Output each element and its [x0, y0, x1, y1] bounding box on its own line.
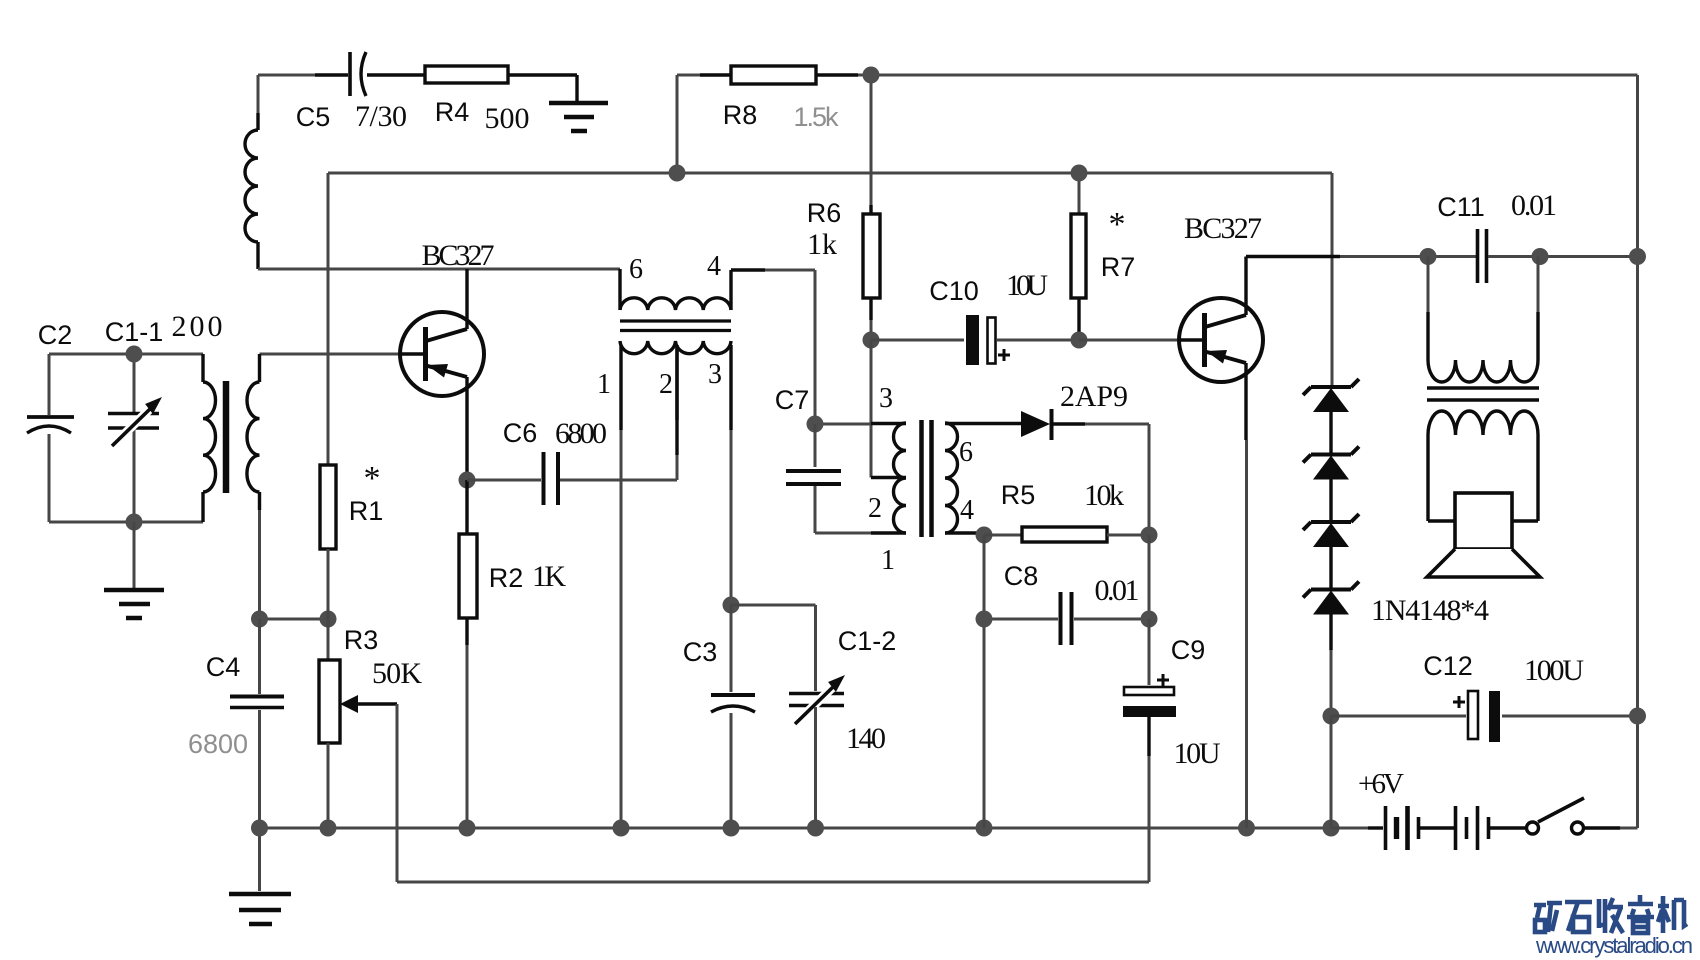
svg-text:C8: C8	[1004, 561, 1039, 591]
ground below tank	[104, 590, 164, 618]
wire antenna tank bottom y=522	[49, 521, 203, 524]
node diode/R5	[1141, 527, 1158, 544]
svg-text:R8: R8	[723, 100, 758, 130]
node bus R3	[320, 820, 337, 837]
node antenna tank top	[126, 346, 143, 363]
ground below C4	[258, 828, 261, 891]
svg-text:3: 3	[708, 359, 722, 390]
wire T1 pin3 lead down to node	[729, 345, 732, 430]
capacitor C4	[258, 619, 261, 694]
svg-text:0.01: 0.01	[1511, 189, 1557, 222]
wire bottom supply bus	[260, 827, 1332, 830]
wire base y=354	[260, 353, 400, 356]
node C12 right bus	[1629, 708, 1646, 725]
wire right bus vertical	[1636, 75, 1639, 828]
battery BT 6V	[1331, 827, 1368, 830]
watermark crystalradio logo	[1534, 895, 1687, 933]
wire T2 pin6 to diode	[945, 422, 1021, 425]
variable capacitor C1-2	[789, 694, 844, 706]
wire T3 secondary to speaker	[1428, 435, 1455, 521]
svg-text:1k: 1k	[807, 228, 837, 261]
potentiometer R3	[327, 619, 330, 660]
svg-text:R3: R3	[344, 625, 379, 655]
node bus C3	[723, 820, 740, 837]
R3 wiper arrow	[340, 695, 358, 713]
node R8/R6 top	[863, 67, 880, 84]
svg-text:C9: C9	[1171, 635, 1206, 665]
node R7 top on 173 bus	[1071, 165, 1088, 182]
speaker LS	[1455, 493, 1512, 549]
resistor R2	[465, 480, 468, 534]
diode D4 1N4148	[1313, 591, 1349, 615]
transformer T2 pin2 lead	[871, 476, 906, 479]
transformer T2 core	[922, 420, 932, 537]
svg-text:R2: R2	[489, 563, 524, 593]
wire C5 to R4	[367, 73, 425, 76]
node secondary/C4	[251, 611, 268, 628]
wire R1 bottom lead	[327, 549, 330, 619]
svg-text:C5: C5	[296, 102, 331, 132]
node C7 top / T1 pin4	[807, 416, 824, 433]
transformer T3 core	[1427, 388, 1539, 400]
wire R3 wiper feedback line	[397, 704, 1149, 882]
wire Q2 collector lead up	[1244, 257, 1247, 316]
node R7/C10/Q2 base	[1071, 332, 1088, 349]
svg-text:1N4148*4: 1N4148*4	[1371, 594, 1489, 627]
svg-text:1: 1	[881, 545, 895, 576]
svg-text:10k: 10k	[1084, 479, 1124, 512]
svg-text:0.01: 0.01	[1095, 574, 1140, 607]
wire C1-1 bottom to ground	[133, 522, 136, 589]
capacitor C9 electrolytic	[1148, 619, 1151, 685]
node R8 bottom on 173 bus	[669, 165, 686, 182]
transistor Q2 BC327	[1178, 338, 1202, 341]
capacitor C7	[814, 424, 817, 467]
wire node to R3 top node	[260, 618, 329, 621]
inductor L1 tickler coil top-left	[257, 75, 260, 113]
svg-text:10U: 10U	[1174, 737, 1221, 770]
wire antenna tank top y=354	[49, 353, 203, 356]
resistor R4	[425, 66, 508, 83]
node C11 right / T3	[1532, 248, 1549, 265]
wire T1 pin4 to C7 node	[731, 268, 765, 271]
wire T2 pin4 to R5	[945, 531, 984, 534]
wire R8 left lead corner down to 173 bus	[676, 75, 679, 173]
wire C6 to T1 pin2	[676, 455, 679, 480]
diode D5 2AP9	[1021, 411, 1050, 437]
wire node to C1-2	[731, 605, 816, 691]
transformer T-in primary winding	[201, 354, 204, 382]
svg-text:C1-1: C1-1	[105, 317, 164, 347]
svg-text:C4: C4	[206, 652, 241, 682]
transistor Q1 BC327	[399, 352, 423, 355]
transformer T3 primary winding	[1427, 257, 1430, 313]
resistor R8	[731, 66, 816, 84]
transformer T-in core bar	[223, 381, 230, 493]
svg-text:BC327: BC327	[1184, 212, 1262, 245]
node T1 pin3 / C3 / C1-2	[723, 597, 740, 614]
svg-text:www.crystalradio.cn: www.crystalradio.cn	[1535, 933, 1693, 958]
wire secondary bottom down to node	[258, 510, 261, 619]
node Q1 emitter	[459, 472, 476, 489]
svg-text:6: 6	[959, 437, 973, 468]
node R1/R3	[320, 611, 337, 628]
resistor R6	[870, 75, 873, 205]
svg-text:BC327: BC327	[422, 239, 495, 272]
svg-text:R7: R7	[1101, 252, 1136, 282]
ground after R4	[549, 103, 608, 131]
svg-text:+6V: +6V	[1358, 768, 1404, 800]
node T2 pin4 / R5 / C8	[976, 527, 993, 544]
resistor R5	[984, 534, 1022, 537]
node C8 left	[976, 611, 993, 628]
svg-text:1: 1	[597, 369, 611, 400]
wire top bus left segment from L1 top to C5	[258, 74, 315, 77]
svg-text:1.5k: 1.5k	[794, 102, 840, 132]
svg-text:200: 200	[172, 310, 223, 343]
wire Q1 collector lead	[465, 269, 468, 329]
node bus C1-2	[807, 820, 824, 837]
diode D1 1N4148	[1313, 388, 1349, 412]
wire diode node to bus	[1330, 716, 1333, 828]
svg-text:R4: R4	[435, 97, 470, 127]
node diode chain / C12	[1323, 708, 1340, 725]
wire 1N4148 chain feed	[1331, 173, 1334, 387]
capacitor C3	[730, 605, 733, 692]
node R6/C10	[863, 332, 880, 349]
svg-text:C7: C7	[775, 385, 810, 415]
svg-text:C11: C11	[1437, 192, 1485, 222]
svg-text:140: 140	[846, 722, 886, 755]
diode D2 1N4148	[1313, 456, 1349, 480]
svg-text:6800: 6800	[188, 729, 248, 759]
transformer T1 core	[620, 321, 731, 331]
transformer T1 secondary winding (pins 1-2-3)	[620, 341, 731, 354]
svg-text:C6: C6	[503, 418, 538, 448]
svg-text:*: *	[1109, 206, 1126, 243]
wire diode chain segments	[1329, 412, 1332, 650]
wire Q2 collector to C11/T3	[1246, 255, 1340, 258]
svg-text:2: 2	[659, 369, 673, 400]
svg-text:R6: R6	[807, 198, 842, 228]
svg-text:C3: C3	[683, 637, 718, 667]
resistor R7	[1078, 173, 1081, 214]
wire Q2 emitter lead down to bus	[1244, 363, 1247, 440]
capacitor C11	[1428, 255, 1476, 258]
diode D3 1N4148	[1313, 523, 1349, 547]
svg-text:4: 4	[960, 495, 974, 526]
wire corner to R8	[677, 74, 700, 77]
wire Q1 emitter lead	[465, 377, 468, 480]
capacitor C8	[984, 535, 1058, 619]
svg-text:6: 6	[629, 254, 643, 285]
transformer T2 pin3 lead	[871, 422, 906, 425]
svg-text:R5: R5	[1001, 480, 1036, 510]
svg-text:*: *	[364, 460, 381, 497]
svg-text:6800: 6800	[555, 417, 607, 450]
wire collector bus y=269	[258, 268, 620, 271]
transformer T1 primary winding (pins 6-4)	[618, 269, 621, 310]
transformer T3 secondary winding	[1428, 411, 1538, 435]
capacitor C12 electrolytic	[1331, 715, 1466, 718]
svg-text:C10: C10	[929, 276, 979, 306]
transformer T2 pin1 lead	[871, 531, 906, 534]
svg-text:7/30: 7/30	[355, 100, 407, 133]
wire R4 to ground	[508, 75, 577, 101]
transformer T2 primary winding	[893, 423, 906, 533]
node bus C8 branch	[976, 820, 993, 837]
svg-text:C2: C2	[38, 320, 73, 350]
transformer T2 secondary winding (pins 6-4)	[945, 423, 958, 533]
resistor R1	[320, 465, 336, 549]
capacitor C10 electrolytic	[871, 339, 964, 342]
svg-text:R1: R1	[349, 496, 384, 526]
variable capacitor C1-1	[133, 354, 136, 522]
capacitor C2	[48, 354, 51, 415]
node bus Q2 emitter	[1238, 820, 1255, 837]
svg-text:50K: 50K	[372, 657, 422, 690]
node bus C4	[251, 820, 268, 837]
svg-text:2: 2	[868, 493, 882, 524]
node bus R2	[459, 820, 476, 837]
wire T2 pin3 node	[870, 340, 873, 478]
switch S1	[1527, 822, 1539, 834]
svg-text:C1-2: C1-2	[838, 626, 897, 656]
wire T1 pin1 lead down to bus	[619, 345, 622, 430]
capacitor C5 (trimmer 7/30)	[348, 52, 352, 96]
node antenna tank bottom	[126, 514, 143, 531]
node bus battery	[1323, 820, 1340, 837]
node C8 right / C9	[1141, 611, 1158, 628]
svg-text:1K: 1K	[532, 560, 566, 593]
svg-text:2AP9: 2AP9	[1060, 380, 1128, 413]
wire to Q2 base	[1079, 339, 1178, 342]
transformer T-in secondary winding	[258, 354, 261, 382]
svg-text:4: 4	[707, 251, 721, 282]
svg-text:500: 500	[485, 102, 530, 135]
capacitor C6	[467, 479, 541, 482]
svg-text:100U: 100U	[1524, 654, 1584, 687]
svg-text:10U: 10U	[1006, 269, 1048, 302]
svg-text:3: 3	[879, 383, 893, 414]
node right bus	[1629, 248, 1646, 265]
wire R8 to node	[816, 73, 858, 76]
node bus T1 pin1	[613, 820, 630, 837]
wire bias vertical x=328 down to R1	[327, 173, 330, 465]
wire 173 bus	[328, 172, 1332, 175]
wire T1 pin2 lead	[675, 345, 678, 455]
node C11 left / T3	[1420, 248, 1437, 265]
svg-text:C12: C12	[1423, 651, 1473, 681]
wire top bus to right edge corner	[871, 74, 1638, 77]
